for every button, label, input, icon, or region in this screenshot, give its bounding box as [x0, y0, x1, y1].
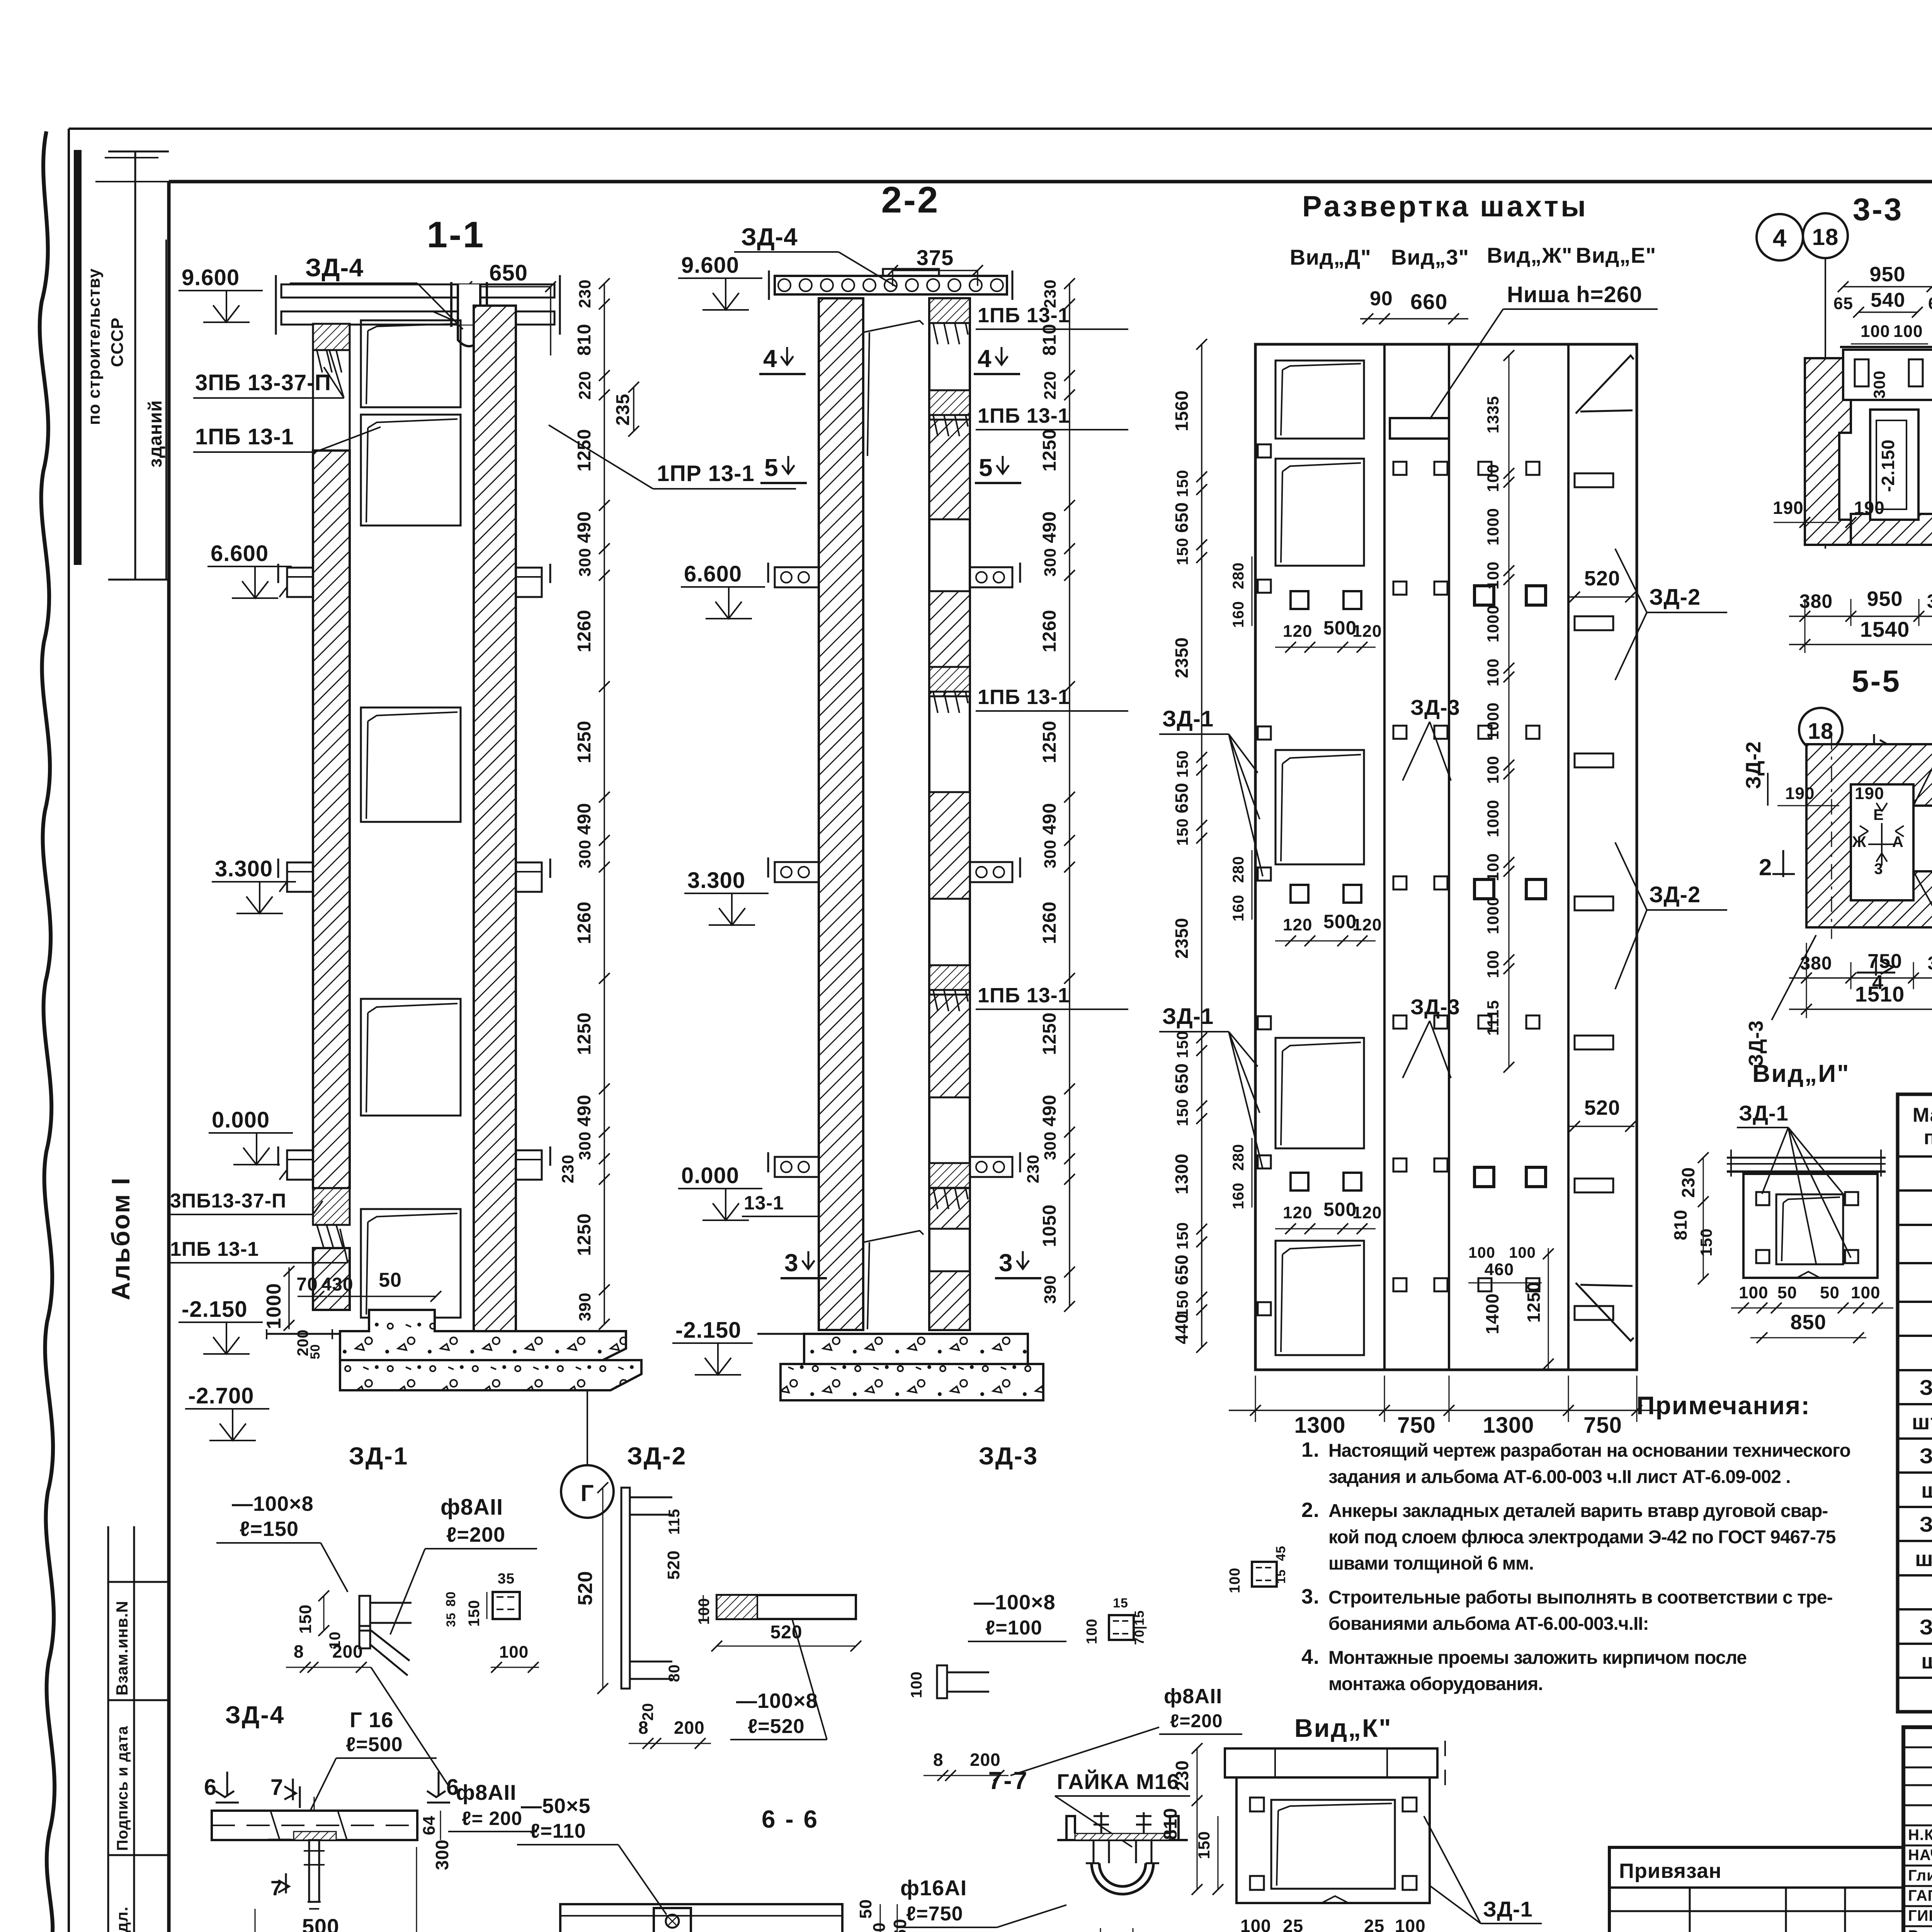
door1 s1	[361, 320, 461, 407]
dim 235 sub s1	[633, 387, 634, 431]
vid K box	[1236, 1777, 1430, 1903]
svg-text:Вид„3": Вид„3"	[1391, 245, 1469, 269]
svg-text:ЗД-1: ЗД-1	[1162, 1004, 1214, 1029]
svg-text:100: 100	[696, 1598, 713, 1625]
svg-text:задания и альбома АТ-6.00-003: задания и альбома АТ-6.00-003 ч.II лист …	[1328, 1467, 1791, 1487]
wall right hatched s1	[474, 306, 516, 1331]
svg-text:1000: 1000	[1484, 508, 1502, 545]
axis circle 18 s5	[1799, 708, 1842, 751]
door3 s1	[361, 707, 461, 822]
svg-text:2350: 2350	[1172, 637, 1192, 678]
svg-text:1250: 1250	[1039, 1012, 1060, 1055]
svg-text:280: 280	[1230, 1144, 1247, 1171]
svg-text:1250: 1250	[1039, 429, 1060, 472]
svg-text:115: 115	[666, 1509, 683, 1535]
svg-text:1000: 1000	[1484, 605, 1502, 642]
svg-text:ℓ=750: ℓ=750	[906, 1903, 963, 1925]
privyazan table	[1609, 1847, 1903, 1932]
zd3 sq b	[1252, 1562, 1277, 1587]
svg-text:70|15: 70|15	[1132, 1610, 1147, 1645]
vid K slab	[1225, 1748, 1437, 1777]
svg-text:50: 50	[1777, 1283, 1797, 1302]
svg-text:3ПБ13-37-П: 3ПБ13-37-П	[170, 1190, 286, 1212]
slab band2 s1	[281, 311, 554, 325]
svg-text:4: 4	[978, 345, 992, 372]
svg-text:1-1: 1-1	[427, 214, 485, 255]
svg-text:300: 300	[576, 1131, 594, 1160]
svg-text:18: 18	[1812, 224, 1839, 250]
svg-text:8: 8	[638, 1718, 649, 1738]
dim 375 top s2	[893, 270, 978, 271]
svg-text:1300: 1300	[1294, 1413, 1345, 1438]
svg-text:швами толщиной 6 мм.: швами толщиной 6 мм.	[1328, 1553, 1534, 1574]
dim 650 top s1	[467, 286, 551, 287]
svg-text:1115: 1115	[1484, 1000, 1502, 1036]
svg-text:1000: 1000	[1484, 702, 1502, 740]
svg-text:100: 100	[1395, 1916, 1426, 1932]
svg-text:1260: 1260	[574, 901, 595, 944]
svg-text:2.: 2.	[1301, 1498, 1320, 1522]
svg-text:490: 490	[1039, 511, 1060, 543]
svg-text:1540: 1540	[1860, 617, 1910, 641]
svg-text:1ПБ 13-1: 1ПБ 13-1	[195, 424, 294, 449]
svg-text:1.: 1.	[1301, 1438, 1320, 1461]
development divider 2	[1448, 344, 1450, 1370]
svg-text:25: 25	[1283, 1916, 1303, 1932]
svg-text:150: 150	[1173, 537, 1191, 565]
stamp divider y4094	[108, 1581, 169, 1583]
svg-text:950: 950	[1867, 587, 1903, 611]
svg-text:380: 380	[1800, 953, 1832, 974]
svg-text:ф16АI: ф16АI	[900, 1876, 967, 1900]
mark 1 down s5	[1853, 734, 1895, 757]
svg-text:100: 100	[1227, 1568, 1243, 1593]
svg-text:100: 100	[1084, 1619, 1100, 1644]
svg-text:Ниша h=260: Ниша h=260	[1507, 282, 1642, 307]
zd3 small sq	[1109, 1615, 1134, 1640]
zd4 channel bar	[212, 1811, 417, 1840]
77 uloop	[1099, 1863, 1146, 1886]
svg-text:-2.150: -2.150	[675, 1318, 741, 1343]
dev plate pair D 3	[1291, 1173, 1308, 1190]
svg-text:ℓ=200: ℓ=200	[446, 1523, 505, 1546]
svg-text:650: 650	[489, 260, 528, 286]
svg-text:45: 45	[1274, 1546, 1288, 1561]
svg-text:100: 100	[1484, 853, 1502, 881]
svg-text:1000: 1000	[1484, 896, 1502, 934]
svg-text:кой под слоем флюса электродам: кой под слоем флюса электродами Э-42 по …	[1328, 1527, 1836, 1548]
svg-text:230: 230	[559, 1155, 577, 1184]
svg-text:160: 160	[1230, 895, 1247, 922]
svg-text:490: 490	[1039, 1094, 1060, 1126]
floor stub left s2 1	[775, 567, 819, 587]
svg-text:1250: 1250	[1524, 1282, 1544, 1323]
torn left paper edge	[40, 131, 54, 1932]
svg-text:200: 200	[674, 1718, 705, 1738]
svg-text:520: 520	[574, 1571, 597, 1605]
svg-text:ЗД-3: ЗД-3	[1920, 1512, 1932, 1536]
svg-text:9.600: 9.600	[681, 253, 739, 278]
dev plate pair D 2	[1291, 885, 1308, 903]
plate bar 520 dims	[717, 1646, 856, 1647]
svg-text:150: 150	[1173, 750, 1191, 777]
svg-text:0.000: 0.000	[681, 1163, 739, 1188]
dev niche Z	[1390, 418, 1449, 439]
vid I break	[1797, 1272, 1820, 1278]
dev plate pair D 1	[1291, 591, 1308, 609]
wall left lintel2 s1	[313, 1188, 350, 1225]
svg-text:Г 16: Г 16	[350, 1708, 394, 1732]
s5 inner rect	[1851, 784, 1913, 900]
svg-text:1510: 1510	[1855, 982, 1905, 1006]
foundation slab s1	[340, 1360, 641, 1390]
svg-text:520: 520	[770, 1622, 802, 1643]
svg-text:4: 4	[763, 345, 777, 372]
stamp top box divider	[108, 151, 169, 153]
zd1 stud plate a	[359, 1596, 370, 1631]
svg-text:ЗД-4: ЗД-4	[225, 1701, 285, 1729]
title block grid	[1903, 1727, 1932, 1932]
wall right segmented s2	[929, 298, 970, 1330]
svg-text:460: 460	[1485, 1260, 1514, 1279]
svg-text:3ПБ 13-37-П: 3ПБ 13-37-П	[195, 370, 331, 395]
svg-text:2-2: 2-2	[881, 179, 940, 221]
axis line s3	[1825, 258, 1826, 549]
svg-text:шт.18: шт.18	[1915, 1546, 1932, 1571]
s3 left wall hatch	[1805, 358, 1851, 545]
svg-text:ℓ= 200: ℓ= 200	[462, 1808, 522, 1829]
svg-text:ЗД-2: ЗД-2	[1742, 741, 1765, 789]
top slab s2	[775, 276, 1007, 294]
svg-text:монтажа оборудования.: монтажа оборудования.	[1328, 1674, 1543, 1694]
svg-text:ЗД-4: ЗД-4	[305, 253, 364, 282]
svg-text:190: 190	[1854, 498, 1885, 518]
drawing frame top	[169, 180, 1932, 184]
svg-text:490: 490	[1039, 803, 1060, 835]
svg-text:Ж: Ж	[1852, 833, 1866, 850]
svg-text:850: 850	[1790, 1311, 1826, 1334]
svg-text:1000: 1000	[1484, 799, 1502, 837]
foundation base line s1	[267, 1333, 340, 1335]
svg-text:5: 5	[764, 454, 779, 481]
svg-text:520: 520	[664, 1550, 683, 1580]
svg-text:235: 235	[613, 393, 633, 425]
svg-text:1400: 1400	[1482, 1293, 1502, 1334]
svg-text:по строительству: по строительству	[85, 268, 104, 425]
svg-text:190: 190	[1855, 784, 1884, 803]
zd3 stud a	[937, 1665, 947, 1698]
svg-text:ℓ=500: ℓ=500	[346, 1733, 403, 1756]
svg-text:100: 100	[1240, 1916, 1271, 1932]
vid I door	[1776, 1194, 1843, 1264]
svg-text:50: 50	[379, 1269, 402, 1291]
svg-text:5: 5	[979, 454, 993, 481]
svg-text:35: 35	[498, 1571, 515, 1587]
axis circle 18 s3	[1803, 213, 1848, 258]
dev door D3	[1276, 750, 1364, 864]
svg-text:3: 3	[1874, 861, 1883, 878]
svg-text:ЗД-1: ЗД-1	[349, 1442, 409, 1470]
svg-text:шахты: шахты	[1480, 190, 1588, 223]
svg-text:80: 80	[666, 1664, 683, 1682]
svg-text:-2.700: -2.700	[188, 1383, 254, 1408]
svg-text:200: 200	[332, 1641, 363, 1662]
svg-text:6.600: 6.600	[211, 541, 269, 566]
vid K door	[1271, 1800, 1395, 1889]
svg-text:ЗД-4: ЗД-4	[1920, 1615, 1932, 1639]
floor stub right s1 3	[516, 1150, 542, 1180]
svg-text:0.000: 0.000	[212, 1107, 270, 1133]
s3 bottom band hatch	[1851, 514, 1932, 545]
svg-text:300: 300	[432, 1839, 452, 1870]
stamp column line b	[133, 1526, 135, 1932]
stamp divider y4801	[108, 1854, 169, 1856]
svg-text:6: 6	[446, 1775, 459, 1800]
svg-text:60: 60	[870, 1922, 889, 1932]
s5 corner diag b	[1913, 871, 1932, 927]
dev bottom dim line	[1229, 1410, 1662, 1411]
svg-text:810: 810	[1160, 1808, 1181, 1840]
floor stub right s2 1	[970, 567, 1012, 587]
svg-text:ЗД-1: ЗД-1	[1739, 1101, 1789, 1125]
svg-text:430: 430	[321, 1274, 353, 1295]
svg-text:100: 100	[1484, 755, 1502, 784]
svg-text:Марка: Марка	[1913, 1104, 1932, 1126]
svg-text:150: 150	[1173, 1099, 1191, 1126]
door bottom s2	[863, 1231, 923, 1329]
svg-text:Рук.ГР.АР: Рук.ГР.АР	[1908, 1927, 1932, 1932]
sheet edge left vertical	[68, 129, 70, 1932]
svg-text:950: 950	[1869, 263, 1905, 286]
svg-text:—100×8: —100×8	[974, 1591, 1056, 1614]
svg-text:1300: 1300	[1483, 1413, 1534, 1438]
s5 compass	[1860, 803, 1904, 866]
svg-text:ℓ=520: ℓ=520	[748, 1715, 805, 1738]
svg-text:1250: 1250	[574, 1213, 595, 1256]
svg-text:Взам.инв.N: Взам.инв.N	[113, 1600, 131, 1696]
svg-text:ℓ=110: ℓ=110	[530, 1820, 586, 1842]
svg-text:380: 380	[1927, 953, 1932, 974]
svg-text:490: 490	[574, 511, 595, 543]
svg-text:1ПР 13-1: 1ПР 13-1	[657, 461, 755, 486]
stamp divider y4400	[108, 1699, 169, 1701]
svg-text:100: 100	[1484, 464, 1502, 492]
axis circle G zd1	[561, 1465, 614, 1518]
svg-text:1260: 1260	[574, 610, 595, 653]
s5 outer hatch	[1806, 744, 1932, 927]
svg-text:150: 150	[1173, 818, 1191, 845]
svg-text:ℓ=200: ℓ=200	[1170, 1711, 1223, 1731]
svg-text:1560: 1560	[1172, 390, 1192, 431]
svg-text:540: 540	[1871, 289, 1905, 311]
stamp heavy line	[74, 150, 82, 565]
axis circle 4	[1757, 214, 1803, 260]
svg-text:6 - 6: 6 - 6	[762, 1805, 819, 1833]
svg-text:220: 220	[576, 371, 594, 400]
svg-text:ℓ=100: ℓ=100	[985, 1617, 1043, 1639]
svg-text:490: 490	[574, 803, 595, 835]
svg-text:100: 100	[1861, 322, 1890, 341]
77 channel	[1066, 1816, 1179, 1840]
door top s2	[863, 321, 923, 456]
svg-text:ф8АII: ф8АII	[456, 1780, 517, 1804]
svg-text:150: 150	[1173, 1222, 1191, 1249]
dev door D2	[1276, 459, 1364, 566]
svg-text:15: 15	[1113, 1596, 1128, 1611]
svg-text:бованиями альбома АТ-6.00-003.: бованиями альбома АТ-6.00-003.ч.II:	[1328, 1614, 1649, 1634]
svg-text:230: 230	[1172, 1760, 1192, 1791]
svg-text:ЗД-3: ЗД-3	[1410, 995, 1460, 1019]
svg-text:3: 3	[784, 1249, 799, 1277]
dev door D1	[1276, 361, 1364, 439]
svg-text:ЗД-3: ЗД-3	[1410, 695, 1460, 719]
svg-text:1250: 1250	[574, 721, 595, 764]
svg-text:35: 35	[444, 1612, 458, 1627]
svg-text:810: 810	[574, 323, 595, 355]
stamp column line a	[134, 151, 136, 580]
svg-text:1050: 1050	[1039, 1204, 1060, 1247]
anchor ZD-4 s1	[458, 284, 480, 325]
door4 s1	[361, 999, 461, 1116]
svg-text:Г: Г	[580, 1480, 594, 1506]
dim 540 s3	[1859, 311, 1917, 313]
vid I slab	[1727, 1157, 1886, 1159]
svg-text:1250: 1250	[1039, 721, 1060, 764]
wall left upper lintel zone s1	[313, 324, 350, 451]
svg-text:190: 190	[1773, 498, 1804, 518]
svg-text:375: 375	[917, 245, 954, 270]
svg-text:300: 300	[1041, 840, 1060, 869]
dim chain left dev	[1201, 344, 1202, 1347]
s5 axis dashline	[1831, 734, 1832, 939]
svg-text:3.: 3.	[1301, 1585, 1320, 1608]
svg-text:150: 150	[1173, 469, 1191, 497]
svg-text:120: 120	[1283, 622, 1312, 641]
dev door E top	[1576, 355, 1634, 413]
lintel 3PB hatch s1	[313, 324, 350, 350]
svg-text:ЗД-4: ЗД-4	[741, 223, 798, 251]
svg-text:7: 7	[270, 1877, 282, 1900]
zd1 plan square	[493, 1592, 520, 1619]
slab circles s2	[778, 279, 791, 291]
svg-text:150: 150	[466, 1600, 483, 1627]
svg-text:750: 750	[1867, 950, 1902, 973]
svg-text:1260: 1260	[1039, 901, 1060, 944]
77 bolts	[1094, 1812, 1151, 1833]
svg-text:1335: 1335	[1484, 396, 1502, 433]
svg-text:810: 810	[1039, 323, 1060, 355]
svg-text:50: 50	[856, 1899, 875, 1919]
svg-text:1ПБ 13-1: 1ПБ 13-1	[978, 984, 1070, 1007]
svg-text:70: 70	[296, 1274, 318, 1295]
svg-text:ЗД-1: ЗД-1	[1920, 1375, 1932, 1400]
svg-text:25: 25	[1364, 1916, 1384, 1932]
svg-text:8: 8	[933, 1750, 944, 1770]
66 plate	[560, 1904, 842, 1932]
svg-text:100: 100	[1468, 1244, 1495, 1261]
svg-text:120: 120	[1283, 1203, 1312, 1222]
svg-text:650: 650	[1172, 1063, 1192, 1094]
svg-text:Вид„Е": Вид„Е"	[1576, 243, 1656, 267]
svg-text:100: 100	[1484, 658, 1502, 686]
floor stub left s2 2	[775, 862, 819, 882]
svg-text:810: 810	[1670, 1209, 1690, 1240]
svg-text:390: 390	[1041, 1275, 1060, 1304]
dev plate pair Zh 3	[1475, 1167, 1494, 1187]
top plate s2	[883, 269, 939, 276]
svg-text:65: 65	[1928, 294, 1932, 313]
svg-text:1260: 1260	[1039, 610, 1060, 653]
svg-text:ГИП: ГИП	[1908, 1907, 1932, 1924]
svg-text:100: 100	[499, 1643, 529, 1662]
svg-text:шт.9: шт.9	[1921, 1478, 1932, 1502]
svg-text:шт.1: шт.1	[1921, 1649, 1932, 1673]
svg-text:СССР: СССР	[108, 317, 127, 367]
svg-text:500: 500	[1323, 1199, 1357, 1220]
svg-text:шт. 24: шт. 24	[1912, 1410, 1932, 1434]
svg-text:1250: 1250	[574, 429, 595, 472]
svg-text:18: 18	[1808, 719, 1834, 744]
svg-text:1ПБ 13-1: 1ПБ 13-1	[170, 1238, 259, 1260]
floor stub left s1 2	[287, 862, 313, 892]
svg-text:3: 3	[999, 1249, 1013, 1277]
svg-text:Монтажные проемы заложить кирп: Монтажные проемы заложить кирпичом после	[1328, 1648, 1747, 1668]
svg-text:ф8АII: ф8АII	[440, 1495, 503, 1520]
development outline	[1255, 344, 1637, 1370]
svg-text:230: 230	[1024, 1155, 1043, 1184]
svg-text:230: 230	[576, 279, 594, 308]
svg-text:ЗД-2: ЗД-2	[1920, 1444, 1932, 1468]
svg-text:1300: 1300	[1172, 1153, 1192, 1194]
svg-text:100: 100	[1509, 1244, 1536, 1261]
svg-text:Альбом I: Альбом I	[106, 1177, 135, 1300]
svg-text:150: 150	[1697, 1228, 1715, 1256]
dim chain right s2	[1069, 284, 1070, 1306]
dev panel E slots	[1575, 473, 1613, 487]
svg-text:1000: 1000	[263, 1283, 285, 1329]
svg-text:3-3: 3-3	[1853, 192, 1903, 227]
development divider 3	[1567, 344, 1570, 1370]
svg-text:520: 520	[1584, 1096, 1620, 1119]
svg-text:520: 520	[1584, 567, 1620, 590]
svg-text:220: 220	[1041, 371, 1060, 400]
svg-text:120: 120	[1352, 915, 1382, 934]
svg-text:Глинж.м.: Глинж.м.	[1908, 1867, 1932, 1884]
svg-text:6: 6	[204, 1775, 217, 1800]
svg-text:ГАЙКА М16: ГАЙКА М16	[1057, 1769, 1179, 1794]
svg-text:7: 7	[270, 1775, 283, 1800]
svg-text:ЗД-2: ЗД-2	[627, 1442, 687, 1470]
floor stub left s1 1	[287, 568, 313, 597]
svg-text:80: 80	[444, 1591, 458, 1607]
dev panel D edge squares	[1258, 444, 1271, 457]
door2 s1	[361, 415, 461, 526]
svg-text:Вид„Д": Вид„Д"	[1290, 245, 1371, 269]
dim chain right s1	[604, 284, 605, 1324]
dev door D5	[1276, 1241, 1364, 1355]
dev dim chain inner Zh	[1509, 355, 1510, 1067]
svg-text:1250: 1250	[574, 1012, 595, 1055]
svg-text:N подл.: N подл.	[113, 1906, 131, 1932]
floor stub right s2 2	[970, 862, 1012, 882]
svg-text:1ПБ 13-1: 1ПБ 13-1	[978, 685, 1070, 709]
svg-text:300: 300	[576, 548, 594, 577]
svg-text:Вид„И": Вид„И"	[1752, 1060, 1850, 1087]
svg-text:Развертка: Развертка	[1302, 190, 1471, 223]
vid K squares	[1250, 1798, 1264, 1811]
svg-text:ЗД-2: ЗД-2	[1649, 585, 1701, 610]
svg-text:-2.150: -2.150	[1878, 439, 1898, 492]
